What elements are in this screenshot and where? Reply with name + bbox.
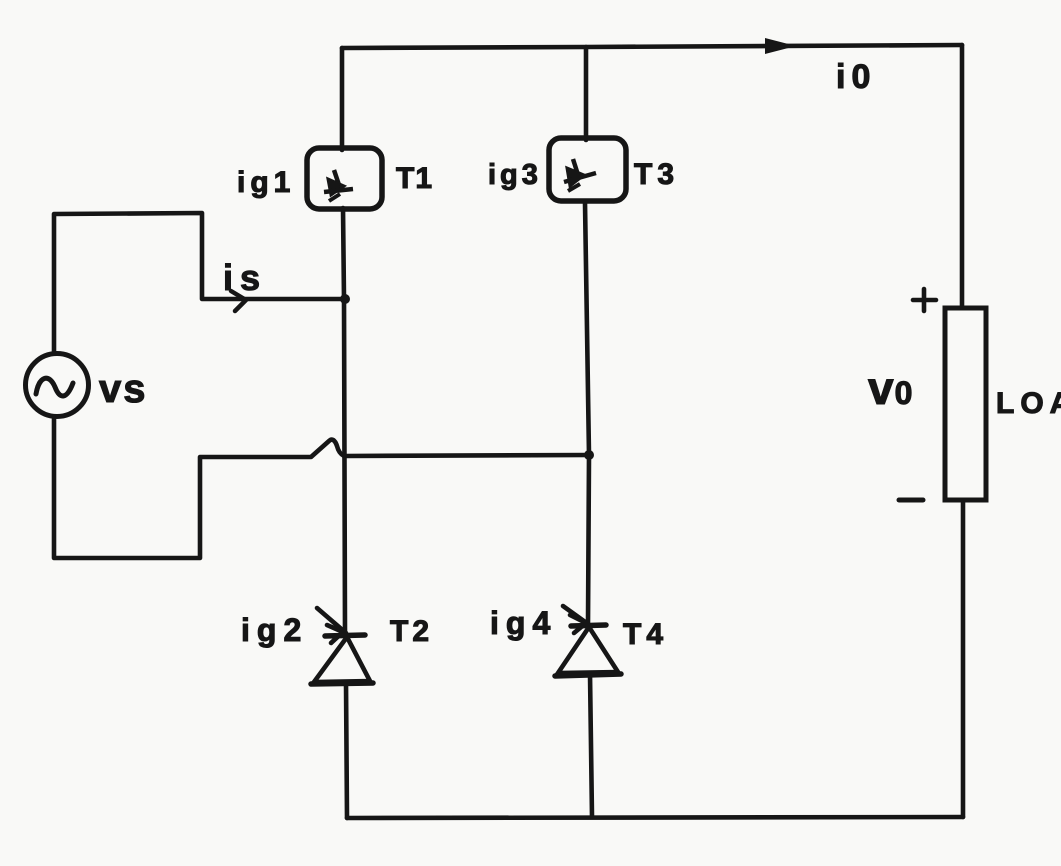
svg-text:ig2: ig2 (241, 612, 308, 648)
wire T3 branch top (584, 47, 589, 140)
thyristor T1 box (307, 148, 382, 209)
thyristor T3 box (549, 138, 626, 201)
wire source top terminal up and over to is node (54, 213, 344, 352)
thyristor T4 (555, 606, 621, 676)
svg-text:T3: T3 (634, 158, 679, 191)
ac source sine symbol (36, 378, 73, 396)
wire T4 cathode down to bottom bus (590, 674, 592, 817)
svg-text:vs: vs (99, 367, 148, 411)
svg-text:T2: T2 (390, 615, 433, 648)
svg-text:i0: i0 (836, 58, 876, 96)
thyristor T2 (311, 608, 373, 684)
wire right branch load bottom to bottom bus (961, 501, 966, 817)
svg-text:ig1: ig1 (237, 166, 295, 199)
wire bottom bus (347, 817, 963, 818)
label plus (913, 289, 936, 311)
svg-text:LOAD: LOAD (996, 387, 1061, 420)
arrow i0 on top bus (765, 38, 796, 54)
svg-text:ig4: ig4 (490, 605, 557, 641)
svg-text:T1: T1 (396, 162, 433, 195)
wire right branch down to load (960, 45, 965, 307)
load resistor box (945, 308, 986, 500)
ac source VS circle (26, 354, 89, 417)
wire T1 branch anode to mid junction and down to T2 (343, 208, 345, 633)
thyristor T1 symbol scribble (324, 170, 353, 201)
label minus (899, 498, 923, 503)
thyristor T3 symbol scribble (564, 159, 596, 191)
svg-text:ig3: ig3 (488, 159, 542, 191)
wire source bottom terminal over and up to mid node with hop over T1 branch (54, 418, 589, 558)
wire top bus from T1 branch to right corner (342, 45, 962, 48)
node junction T3-T4 with source (584, 450, 594, 460)
svg-text:v0: v0 (868, 362, 912, 414)
arrow is on wire (231, 291, 246, 311)
wire T2 cathode down to bottom bus (346, 683, 347, 818)
svg-text:T4: T4 (623, 618, 668, 651)
node junction T1-T2 with source (340, 294, 350, 304)
wire T1 branch top (340, 48, 345, 150)
wire T3 branch anode down through mid junction to T4 (585, 203, 589, 623)
